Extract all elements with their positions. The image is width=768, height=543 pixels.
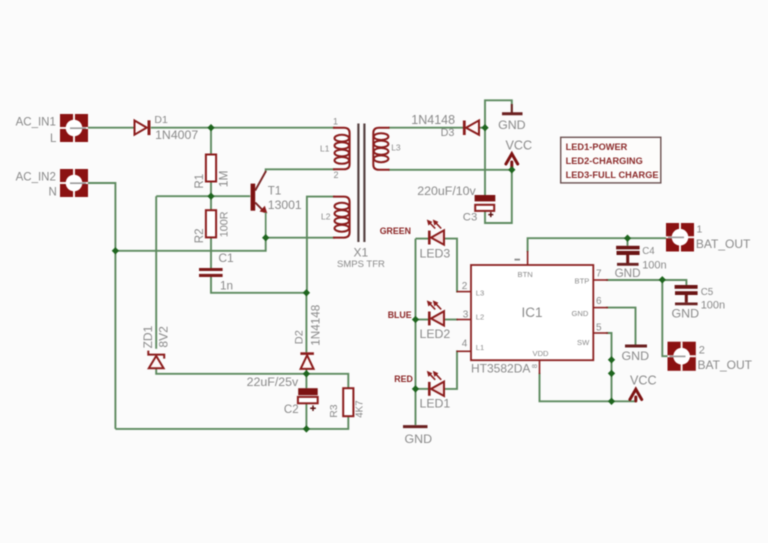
svg-text:IC1: IC1	[522, 305, 543, 320]
svg-text:GND: GND	[405, 432, 433, 446]
wire C4 stem	[627, 238, 629, 246]
svg-text:C1: C1	[218, 251, 234, 265]
capacitor C5 100n	[675, 285, 698, 302]
connector AC_IN1	[60, 114, 88, 142]
wire BTP run to C5	[606, 280, 686, 285]
svg-text:GND: GND	[498, 118, 526, 132]
node R1/R2/base	[207, 193, 214, 200]
wire C3 bottom loop	[485, 170, 512, 223]
svg-text:AC_IN2: AC_IN2	[16, 171, 56, 183]
svg-text:2: 2	[699, 344, 705, 356]
wire node to D2 top	[305, 293, 307, 353]
capacitor C3 220uF polarized	[475, 195, 496, 217]
LED3 green	[427, 220, 444, 245]
zener ZD1	[148, 351, 164, 369]
svg-text:R1: R1	[194, 174, 206, 189]
svg-text:5: 5	[596, 322, 602, 333]
svg-text:100n: 100n	[642, 259, 666, 271]
svg-text:1n: 1n	[220, 280, 233, 293]
svg-text:8: 8	[530, 364, 539, 368]
pin 8 stub bottom	[539, 360, 541, 374]
ground GND (C4)	[617, 263, 639, 266]
svg-text:GREEN: GREEN	[380, 226, 411, 236]
svg-text:1N4148: 1N4148	[310, 305, 323, 346]
wire AC_IN1 to D1	[88, 127, 134, 129]
node LED2 rail	[412, 316, 419, 323]
diode D3 1N4148	[464, 120, 479, 135]
wire VCC stem	[511, 162, 513, 170]
svg-text:L2: L2	[321, 212, 331, 222]
svg-text:1: 1	[333, 117, 338, 127]
svg-text:R3: R3	[328, 404, 340, 418]
wire LED ground rail	[415, 239, 417, 425]
connector BAT_OUT 2	[668, 342, 696, 371]
node LED1 rail	[412, 385, 419, 392]
svg-text:GND: GND	[615, 267, 641, 280]
wire R2 bottom to C1	[210, 237, 212, 268]
wire L3 top to D3	[389, 127, 464, 129]
LED2 blue	[427, 300, 444, 325]
pin 4 stub	[457, 350, 472, 352]
svg-text:L2: L2	[476, 313, 484, 322]
svg-text:L: L	[50, 133, 57, 145]
wire D3 anode to node	[479, 127, 485, 129]
wire node down to C3 top	[484, 128, 486, 195]
svg-text:1N4148: 1N4148	[411, 113, 455, 127]
svg-text:GND: GND	[672, 306, 700, 320]
pin 3 stub	[457, 319, 472, 321]
svg-text:C5: C5	[701, 287, 714, 298]
op IC1 HT3582DA box	[471, 265, 593, 360]
svg-text:220uF/10v: 220uF/10v	[417, 184, 476, 198]
svg-text:RED: RED	[394, 374, 413, 384]
ground GND (LED rail)	[403, 425, 428, 428]
pin 7 stub	[593, 279, 608, 281]
wire ZD1 column from base node	[155, 196, 157, 349]
wire D2 bottom to anode rail	[305, 369, 307, 374]
node D2 anode	[303, 370, 310, 377]
svg-text:N: N	[49, 186, 57, 198]
svg-text:22uF/25v: 22uF/25v	[247, 375, 299, 389]
capacitor C2 22uF/25v polarized	[298, 388, 318, 411]
wire VDD to VCC run	[540, 373, 636, 401]
svg-text:7: 7	[596, 268, 602, 279]
capacitor C4 100n	[616, 246, 640, 264]
svg-text:1M: 1M	[217, 171, 231, 188]
svg-text:SMPS TFR: SMPS TFR	[337, 259, 385, 270]
wire BAT_OUT2 rail	[662, 280, 667, 356]
wire bottom rail	[115, 416, 348, 429]
svg-text:R2: R2	[194, 228, 206, 243]
transformer winding L3	[373, 128, 389, 170]
svg-text:100n: 100n	[701, 299, 725, 311]
svg-text:LED1-POWER: LED1-POWER	[566, 142, 628, 152]
svg-text:L1: L1	[476, 343, 484, 352]
svg-text:VCC: VCC	[630, 374, 657, 388]
svg-text:100R: 100R	[219, 211, 231, 237]
diode D2 1N4148	[300, 354, 314, 369]
transformer winding L1	[333, 128, 350, 170]
pin 2 stub	[457, 291, 472, 293]
resistor R3	[343, 388, 353, 416]
node SW rail a	[608, 356, 615, 363]
svg-text:LED3: LED3	[420, 246, 451, 260]
wire LED2 leads	[416, 319, 429, 321]
supply VCC (VDD rail)	[630, 389, 642, 401]
LED1 red	[427, 371, 444, 396]
svg-text:BAT_OUT: BAT_OUT	[698, 358, 753, 372]
wire AC_IN2 to left column	[88, 183, 115, 429]
wire R1 bottom to base node	[210, 182, 212, 211]
node C4 top	[624, 235, 631, 242]
svg-text:13001: 13001	[268, 198, 302, 212]
svg-text:D3: D3	[441, 127, 455, 139]
wire pin6 to GND	[606, 308, 636, 345]
svg-text:3: 3	[463, 309, 469, 320]
wire ZD1 anode to R3 top rail	[156, 368, 348, 388]
svg-text:C3: C3	[463, 211, 477, 223]
svg-text:D1: D1	[154, 114, 168, 126]
wire node to R1 top	[210, 128, 212, 155]
svg-text:1: 1	[697, 223, 703, 235]
wire L3 bottom to VCC node	[389, 169, 512, 171]
node left column	[112, 247, 119, 254]
svg-text:BAT_OUT: BAT_OUT	[696, 237, 751, 251]
wire emitter left run	[115, 238, 265, 251]
transistor T1	[251, 171, 268, 237]
resistor R2	[206, 210, 216, 237]
svg-text:BLUE: BLUE	[388, 310, 412, 320]
connector BAT_OUT 1	[666, 223, 694, 252]
svg-text:VCC: VCC	[506, 139, 533, 153]
svg-text:C4: C4	[642, 246, 655, 257]
node D3 anode	[481, 124, 488, 131]
wire D1 to L1 pin1 via node	[151, 127, 335, 129]
pin 1 stub top	[527, 251, 529, 265]
wire base node to T1 base	[156, 195, 250, 197]
resistor R1	[206, 155, 216, 182]
supply VCC (D3/C3 node)	[506, 154, 518, 169]
wire LED1 leads	[416, 388, 429, 390]
ground GND top (D3)	[502, 104, 523, 114]
wire LED3 leads	[416, 238, 429, 240]
pin 6 stub	[593, 307, 608, 309]
svg-text:BTN: BTN	[518, 270, 533, 279]
svg-text:AC_IN1: AC_IN1	[16, 116, 56, 128]
svg-text:BTP: BTP	[575, 277, 590, 286]
svg-text:6: 6	[596, 296, 602, 307]
svg-text:L3: L3	[391, 143, 401, 153]
wire VCC stem2	[635, 399, 637, 401]
svg-text:8V2: 8V2	[157, 326, 171, 348]
svg-text:GND: GND	[572, 309, 589, 318]
svg-text:HT3582DA: HT3582DA	[471, 362, 530, 376]
transformer winding L2	[333, 197, 350, 238]
svg-text:SW: SW	[577, 338, 590, 347]
ground GND (pin6)	[625, 345, 647, 348]
transformer X1 core	[358, 124, 364, 243]
svg-text:4: 4	[462, 338, 468, 349]
svg-text:LED2-CHARGING: LED2-CHARGING	[566, 156, 643, 166]
svg-text:4K7: 4K7	[355, 400, 366, 417]
svg-text:2: 2	[334, 170, 339, 180]
node T1 emitter	[262, 234, 269, 241]
svg-text:D2: D2	[294, 330, 306, 344]
capacitor C1	[199, 268, 223, 277]
node C2 bottom	[303, 425, 310, 432]
svg-text:GND: GND	[622, 349, 650, 363]
svg-text:T1: T1	[268, 185, 281, 197]
svg-text:LED3-FULL CHARGE: LED3-FULL CHARGE	[566, 170, 659, 180]
pin number 1 rotated	[515, 259, 521, 261]
ground GND (C5)	[675, 302, 698, 305]
svg-text:ZD1: ZD1	[141, 325, 155, 348]
svg-text:VDD: VDD	[533, 349, 550, 358]
node SW/VDD rail	[608, 398, 615, 405]
svg-text:LED2: LED2	[420, 327, 451, 341]
legend box	[561, 137, 661, 183]
svg-text:X1: X1	[354, 245, 369, 259]
node BTP rail	[659, 276, 666, 283]
svg-text:1N4007: 1N4007	[155, 128, 198, 142]
wire T1 collector to L1 pin2	[266, 169, 335, 172]
connector AC_IN2	[60, 169, 88, 197]
svg-text:2: 2	[462, 281, 468, 292]
wire C2 top stem	[305, 374, 307, 388]
svg-text:L3: L3	[476, 289, 484, 298]
wire C1 bottom to D2 node	[211, 277, 306, 293]
wire pin5 SW rail	[606, 333, 612, 401]
node C1/L2/D2	[303, 289, 310, 296]
node VCC/C3	[508, 166, 515, 173]
diode D1 1N4007	[135, 120, 150, 135]
wire T1 emitter node to L2 pin	[266, 237, 335, 239]
wire node up to GND symbol	[485, 100, 512, 127]
node D1/R1	[207, 124, 214, 131]
node SW rail b	[608, 370, 615, 377]
wire L2 top to D2 column	[307, 197, 335, 293]
wire BTN pin up and right to BAT_OUT1	[528, 238, 666, 252]
svg-text:L1: L1	[320, 144, 330, 154]
wire C2 bottom to bottom rail	[305, 404, 307, 429]
svg-text:LED1: LED1	[420, 396, 451, 410]
pin 5 stub	[593, 332, 608, 334]
svg-text:C2: C2	[284, 404, 299, 416]
